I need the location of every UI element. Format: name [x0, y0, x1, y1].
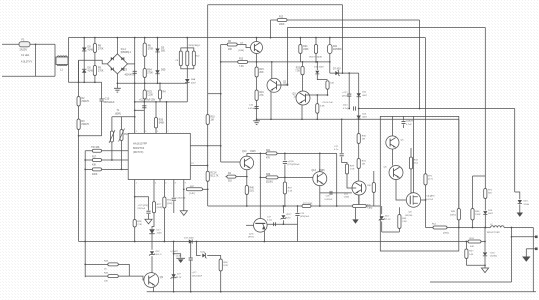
resistor R37 in box [410, 148, 412, 157]
wire emitter rail y119 [257, 118, 459, 120]
wire Q14 emitter [246, 170, 248, 186]
svg-text:540K: 540K [159, 123, 165, 125]
wire IC bottom pin c column [163, 180, 165, 198]
svg-text:3.3K: 3.3K [320, 106, 325, 108]
transistor Q4 PNP [352, 181, 366, 195]
node lower rail joins [78, 81, 80, 83]
svg-text:D7 42V: D7 42V [333, 69, 341, 71]
resistor R41e emitter tap [226, 176, 227, 178]
diode D18 sense [149, 229, 155, 233]
resistor RC7 divider [465, 242, 467, 250]
svg-text:7.5K: 7.5K [295, 71, 300, 73]
wire column x256 down [256, 62, 258, 121]
svg-text:C10K: C10K [147, 95, 153, 97]
svg-text:[470uF]: [470uF] [342, 95, 350, 97]
svg-text:+C1?: +C1? [342, 92, 348, 94]
wire x336 drop [336, 153, 338, 206]
box power stage enclosure [380, 116, 459, 251]
resistor R39 on y177 [266, 176, 278, 179]
transistor Q7 optocoupler [253, 219, 267, 233]
wire thermistor bus y117 [112, 116, 135, 118]
svg-text:270K: 270K [148, 48, 154, 51]
wire R29 to base [347, 174, 356, 188]
capacitor C19 [297, 206, 299, 213]
resistor RC6 on rail [468, 240, 481, 243]
capacitor C15 [255, 106, 259, 108]
wire IC pin stub top4 [166, 102, 168, 133]
ground output arrow [525, 249, 527, 257]
transistor Q1 [251, 42, 263, 54]
resistor R21 hang [329, 38, 331, 45]
resistor R31 [357, 159, 360, 169]
zener D7 42V [335, 71, 338, 75]
wire output rail y227 [447, 227, 491, 229]
wire feedback drop x514 [514, 109, 516, 193]
svg-text:2W47K: 2W47K [81, 123, 89, 126]
wire output stub y237 with pads [512, 236, 537, 238]
svg-text:0.47uF[1]: 0.47uF[1] [248, 108, 258, 110]
diode D12 [357, 116, 361, 120]
wire post-choke rail [67, 38, 69, 83]
wire D10 to R27 [317, 74, 327, 79]
svg-text:R40: R40 [250, 188, 255, 190]
wire AC line L input [2, 43, 19, 45]
wire output stub y282 [430, 281, 512, 283]
diode D14 [483, 211, 487, 214]
wire base join [118, 264, 129, 276]
resistor RC5 drop left [144, 83, 146, 90]
capacitor C8 clamp [186, 51, 189, 66]
resistor R46b [207, 256, 221, 260]
svg-text:8.2K: 8.2K [224, 265, 229, 267]
resistor R24 hang [299, 38, 301, 45]
wire y20 drop right [419, 20, 421, 109]
capacitor C17 coupling [341, 119, 343, 153]
fuse F1 [19, 42, 30, 47]
varistor RV1 [121, 117, 123, 130]
wire box bottom bus [382, 231, 400, 233]
wire column x134.7 from rail to IC [134, 38, 136, 134]
wire IC left pin wire 3 [85, 168, 128, 170]
resistor R6b base [227, 43, 237, 46]
resistor R33 on rail [353, 205, 367, 208]
zener ZD3 3.7V column [173, 242, 175, 292]
svg-text:(Q?): (Q?) [249, 233, 254, 235]
diode D15 [518, 200, 522, 204]
wire IC right pin 12 [190, 165, 207, 167]
capacitor C16 timing [172, 197, 176, 199]
diode D17 on rail [189, 239, 192, 243]
diode D5 aux upper [157, 38, 159, 84]
svg-text:3: 3 [145, 131, 146, 133]
svg-text:RC1: RC1 [432, 224, 437, 226]
wire R27 to base [327, 89, 329, 95]
zener ZD1 in box [381, 206, 383, 214]
svg-text:1.1uF: 1.1uF [176, 256, 182, 258]
capacitor C13 IC supply [143, 102, 145, 133]
svg-text:+[C7]: +[C7] [122, 70, 128, 72]
svg-text:[D96]: [D96] [239, 50, 245, 52]
diode D9 clamp upper [83, 38, 85, 83]
ground D15 [517, 213, 523, 217]
ground D16 outline [481, 268, 488, 273]
svg-text:RC6: RC6 [470, 238, 475, 240]
wire bridge right vertex [128, 63, 135, 65]
svg-text:R21: R21 [333, 46, 338, 48]
svg-text:R26: R26 [159, 120, 164, 122]
svg-text:HA16107FP: HA16107FP [133, 142, 147, 146]
svg-text:9: 9 [185, 183, 186, 185]
wire bleeder drop [78, 60, 80, 82]
wire opto base stub [246, 224, 254, 226]
resistor R28 base lower [316, 95, 318, 104]
svg-text:3.7V: 3.7V [177, 277, 182, 279]
ground x256 [253, 120, 260, 122]
svg-text:R23 7K243K: R23 7K243K [310, 57, 323, 59]
svg-text:270K: 270K [147, 72, 153, 75]
resistor R40a drop right [159, 83, 161, 90]
ground mid [355, 206, 357, 219]
svg-text:1M: 1M [362, 139, 365, 141]
transistor Q13 [313, 172, 327, 186]
capacitor C30 [284, 153, 286, 160]
transistor Q14 [240, 156, 254, 170]
ground ref outline [145, 219, 152, 224]
wire top rail y5 [208, 4, 343, 6]
wire top rail y27 [287, 27, 485, 29]
wire top rail y20 [271, 19, 420, 21]
svg-text:2N: 2N [294, 97, 297, 99]
transistor Q9 [144, 273, 159, 288]
wire IC left pin wire 1 [85, 150, 128, 152]
op-amp U1 PWM controller [128, 133, 190, 179]
resistor R44 base [85, 263, 108, 265]
wire B+ top rail [68, 37, 425, 39]
diode D8 clamp [185, 79, 190, 83]
wire IC bottom pin e column [183, 180, 185, 211]
svg-text:Q13: Q13 [312, 170, 317, 172]
wire IC left pin wire 2 [85, 159, 128, 161]
resistor R9 discharge lower [93, 66, 96, 76]
capacitor C10 bulk electrolytic [101, 82, 103, 99]
svg-text:200K: 200K [279, 24, 285, 26]
svg-text:C945: C945 [250, 151, 256, 153]
svg-text:2W47K: 2W47K [81, 100, 89, 103]
svg-text:INDUCTOR2: INDUCTOR2 [487, 232, 501, 234]
node rail dots [189, 241, 191, 243]
resistor R51 snub [424, 174, 427, 185]
resistor R4 clamp [179, 51, 182, 66]
resistor R23 hang [315, 38, 317, 45]
svg-text:7.3K: 7.3K [137, 224, 142, 226]
capacitor C21b ref [146, 210, 150, 212]
svg-text:0.47uF: 0.47uF [426, 199, 433, 201]
svg-text:R15: R15 [259, 69, 264, 71]
wire clamp feed [186, 38, 188, 48]
svg-text:RC5: RC5 [147, 92, 152, 94]
svg-text:[10K]: [10K] [157, 207, 162, 209]
resistor R38 under C30 [284, 177, 286, 182]
wire C10 to bleeder column [79, 135, 102, 137]
zener ZD2 [150, 251, 154, 254]
svg-text:4148: 4148 [88, 48, 94, 51]
inductor L1 common-mode choke [56, 57, 68, 65]
wire Q3 base right [306, 94, 328, 96]
svg-text:7.3K: 7.3K [239, 66, 244, 68]
svg-text:240K: 240K [303, 49, 309, 51]
capacitor C21 in box [391, 116, 393, 135]
wire output drop x511 [511, 228, 513, 283]
wire x472 x485 link [473, 175, 486, 177]
transistor Q3 mirrored [296, 91, 310, 105]
wire aux bus y83 [117, 82, 187, 84]
node top rail joins [83, 37, 85, 39]
svg-text:2W3.1: 2W3.1 [450, 215, 457, 217]
wire clamp to aux bus [186, 83, 188, 102]
svg-text:D17 4148: D17 4148 [184, 238, 194, 240]
wire mid line to bridge [79, 60, 108, 64]
resistor R16 pin1 [92, 149, 101, 152]
svg-text:1M: 1M [362, 164, 365, 166]
resistor R46a secondary [472, 176, 474, 209]
resistor R47 column [484, 189, 487, 199]
capacitor C11 series [353, 106, 355, 110]
wire rail y62 [221, 61, 330, 63]
svg-text:[2W1]: [2W1] [443, 232, 449, 234]
transistor Q8 MOSFET [406, 193, 420, 207]
resistor R30 [357, 134, 360, 144]
svg-text:(60R): (60R) [115, 113, 121, 115]
svg-text:10/C100uF: 10/C100uF [192, 276, 203, 278]
wire IC bottom pin d column [173, 180, 175, 198]
svg-text:[C?]: [C?] [428, 179, 432, 181]
transistor Q6 in box [389, 166, 403, 180]
svg-text:4.7V: 4.7V [286, 217, 291, 219]
svg-text:ZD1?: ZD1? [286, 214, 292, 216]
svg-text:450V22uF: 450V22uF [103, 101, 115, 104]
resistor R19 to rail [133, 220, 136, 228]
svg-text:5.1K: 5.1K [288, 191, 293, 193]
svg-text:C14 4.7uF: C14 4.7uF [323, 102, 334, 104]
svg-text:44K: 44K [470, 246, 474, 248]
wire zener bus y73 [330, 72, 359, 74]
svg-text:[1K]: [1K] [250, 191, 254, 193]
capacitor C1 X2 across line [35, 44, 37, 76]
svg-text:[10K]: [10K] [167, 203, 172, 205]
wire AC line N input [2, 75, 55, 77]
diode D16 column [484, 228, 486, 252]
svg-text:4.7u]: 4.7u] [343, 108, 348, 110]
svg-text:(C)AT9: (C)AT9 [406, 119, 414, 122]
svg-text:7.3[K]: 7.3[K] [367, 208, 373, 210]
wire R37 to drain [411, 169, 414, 193]
wire y20 drop to rail [270, 20, 272, 38]
wire feedback rail y108 [359, 108, 515, 110]
svg-text:(M4TVX): (M4TVX) [133, 150, 144, 154]
wire bridge top to rail [116, 38, 118, 54]
wire Q14 base [221, 161, 241, 163]
svg-text:2W1[C84](-1: 2W1[C84](-1 [189, 45, 202, 47]
svg-text:400K: 400K [92, 174, 98, 176]
resistor R6 aux upper [144, 38, 146, 84]
resistor R18 pin3 [92, 168, 101, 171]
resistor R25 Q3 collector [302, 62, 304, 67]
svg-text:1: 1 [136, 183, 137, 185]
svg-text:R13: R13 [239, 58, 244, 60]
diode D11 [357, 93, 361, 97]
svg-text:4: 4 [155, 183, 156, 185]
svg-text:0.1u]: 0.1u] [267, 220, 272, 222]
svg-text:2.3K: 2.3K [402, 221, 407, 223]
wire Q1 emitter [256, 54, 258, 62]
svg-text:C16 [103]: C16 [103] [176, 198, 185, 200]
svg-text:[14K]: [14K] [190, 193, 195, 195]
svg-text:R?? [10K]: R?? [10K] [303, 203, 313, 205]
svg-text:14K: 14K [469, 254, 473, 256]
svg-text:57LA: 57LA [524, 203, 530, 206]
svg-text:4.7uF: 4.7uF [406, 124, 412, 126]
resistor R16b [255, 90, 258, 101]
wire Q13 collector [319, 153, 321, 171]
svg-text:R25: R25 [296, 68, 301, 70]
svg-text:C945: C945 [344, 197, 350, 199]
wire IC right pin 14 [190, 145, 220, 147]
wire Q1 collector [256, 38, 258, 42]
resistor R36 pre-box [373, 171, 375, 183]
svg-text:D1-4: D1-4 [121, 49, 127, 51]
svg-text:=(C30: =(C30 [288, 161, 295, 163]
wire fb bus y265 [466, 264, 485, 266]
svg-text:500: 500 [161, 50, 166, 53]
wire mosfet source to column [421, 199, 426, 201]
wire gnd stub y249 [526, 248, 536, 250]
wire Q2 base right [277, 84, 287, 86]
svg-text:C1 uE1: C1 uE1 [21, 54, 30, 57]
resistor R45 base [85, 275, 108, 277]
svg-text:1M: 1M [211, 120, 214, 122]
wire bottom rail y292 [147, 291, 536, 293]
svg-text:BD740: BD740 [406, 215, 413, 217]
wire opto output bus y224 [267, 223, 297, 225]
wire lower rail y82 [68, 81, 101, 83]
wire aux rail y102 [135, 101, 188, 103]
capacitor C25 tant to gnd [174, 254, 181, 258]
resistor R45a secondary [458, 119, 460, 208]
resistor R7 aux lower [143, 69, 146, 78]
wire right column x485 [484, 28, 486, 189]
resistor R29 to Q4 base [345, 164, 348, 174]
capacitor C18 series [273, 222, 275, 226]
svg-text:10K: 10K [104, 280, 108, 282]
bridge rectifier D1-4 [107, 54, 127, 74]
wire IC bottom pin b column [153, 180, 155, 202]
resistor R15 [255, 67, 258, 77]
wire y27 drop to Q2 base [286, 28, 288, 86]
svg-text:2A25V: 2A25V [20, 49, 28, 52]
node left tie joins [84, 159, 86, 161]
resistor RC1 output series [426, 227, 434, 229]
svg-text:47K: 47K [266, 158, 271, 160]
svg-text:5: 5 [157, 131, 158, 133]
resistor R17 pin2 [92, 159, 101, 162]
svg-text:1.5K: 1.5K [350, 169, 355, 171]
svg-text:[P5?]: [P5?] [248, 237, 253, 239]
wire left pins tie vertical [84, 151, 86, 277]
svg-text:[476]/1uF: [476]/1uF [300, 216, 310, 218]
svg-text:+C13 47uF 25V: +C13 47uF 25V [139, 99, 156, 101]
svg-text:20K: 20K [259, 72, 264, 74]
wire base bus y177 [260, 176, 316, 178]
wire IC bottom pin a column [134, 180, 136, 220]
wire C13 tie bus [135, 109, 145, 111]
diode D10 bias [316, 62, 318, 70]
transistor Q5 in box [386, 136, 399, 149]
resistor R12 on y20 [277, 19, 287, 22]
ground bridge return [114, 87, 121, 89]
resistor R10 column [206, 115, 209, 125]
wire bridge bottom column [116, 74, 118, 88]
svg-text:[1C]: [1C] [414, 163, 418, 165]
svg-text:[DB206]-1: [DB206]-1 [121, 52, 132, 54]
wire tall column x207.5 [207, 5, 209, 206]
ground pin e outline [180, 211, 187, 216]
svg-text:GL1.3: GL1.3 [155, 254, 162, 256]
resistor R43 source [398, 207, 400, 214]
resistor R40 to rail [245, 186, 248, 195]
wire fb to column [203, 188, 208, 190]
wire x220 drop [220, 45, 222, 163]
wire Q5 to Q6 [391, 149, 393, 166]
wire link y93.7 [208, 93, 221, 95]
wire drain rail x425 [425, 38, 427, 174]
svg-text:400V47uF: 400V47uF [125, 75, 136, 77]
transistor Q2 mirrored [267, 78, 281, 92]
svg-text:[510K]: [510K] [266, 182, 273, 184]
wire Q9 emitter [153, 287, 155, 292]
svg-text:8003/TK3: 8003/TK3 [133, 146, 145, 150]
wire to D15 [515, 192, 520, 199]
svg-text:150K: 150K [475, 214, 481, 216]
wire mid rail y206 [208, 205, 381, 207]
diode D6 clamp lower [82, 69, 86, 73]
svg-text:+C2? [470]: +C2? [470] [138, 205, 149, 207]
svg-text:L(C)AT?: L(C)AT? [171, 250, 179, 253]
wire Q2 collector [271, 62, 273, 79]
svg-text:R12: R12 [279, 16, 284, 18]
wire Q13 emitter [319, 186, 321, 206]
wire opto collector column [259, 153, 261, 218]
node AC junction [35, 43, 37, 45]
wire opto emitter drop [263, 231, 265, 242]
capacitor C12 aux store [348, 73, 350, 94]
svg-text:0.022uF: 0.022uF [325, 199, 333, 201]
capacitor C24 output [190, 242, 192, 259]
zener D20 horizontal [197, 242, 201, 256]
wire column x358 down [358, 73, 360, 206]
svg-text:T/R 43K: T/R 43K [91, 147, 100, 149]
svg-text:970/1uF: 970/1uF [138, 208, 146, 210]
resistor R2 bleeder [78, 60, 80, 241]
svg-text:7: 7 [168, 131, 169, 133]
resistor R26 feedback [155, 102, 157, 133]
svg-text:D10 4148: D10 4148 [314, 67, 324, 69]
resistor R41 on y153 [266, 152, 277, 155]
svg-text:2: 2 [136, 131, 137, 133]
svg-text:D8A: D8A [191, 78, 196, 81]
svg-text:D05: D05 [161, 68, 166, 71]
svg-text:R41: R41 [266, 150, 271, 152]
diode D05 aux lower [155, 70, 159, 74]
